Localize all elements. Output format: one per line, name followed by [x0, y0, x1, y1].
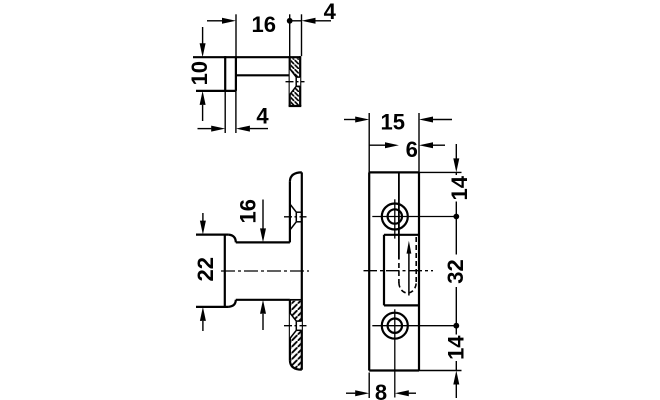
plate dimension 8: left arrow: [346, 392, 355, 394]
plate: slot top edge: [384, 234, 419, 236]
top view: bore lower line: [296, 85, 300, 87]
front view: flange left edge lower: [289, 300, 291, 361]
plate dimension 14 upper: dimension line: [455, 172, 457, 216]
front view: flange shoulder line: [290, 299, 302, 301]
front view dimension 16: lower arrow with shaft: [260, 300, 266, 314]
svg-text:4: 4: [324, 0, 337, 24]
plate dimension 14 upper: arrow: [455, 144, 457, 159]
top view dimension 4 (bottom): extension lines: [224, 91, 226, 133]
front view dimension 22: lower arrow: [200, 307, 206, 321]
plate: center line: [364, 270, 434, 272]
plate: slot right hidden edge dashed: [415, 237, 417, 283]
plate dimension 14 lower: dimension line: [455, 326, 457, 371]
front view: flange right edge: [301, 172, 303, 369]
plate dimension 8: right arrow: [395, 390, 409, 396]
top view dimension 16: shaft and arrow: [207, 20, 222, 22]
svg-text:22: 22: [193, 257, 218, 281]
plate dimension 15: extension lines: [368, 113, 370, 172]
svg-text:14: 14: [447, 175, 472, 200]
plate: pin left hidden edge dashed: [398, 263, 400, 283]
plate: lower hole inner circle: [388, 319, 402, 333]
top view: head left edge: [224, 56, 226, 91]
plate dimension 14 upper: label: [450, 175, 467, 202]
front view: head bottom edge with extension: [196, 306, 228, 308]
front view: center line: [221, 270, 309, 272]
svg-text:15: 15: [380, 109, 404, 134]
svg-text:6: 6: [406, 137, 418, 162]
top view: countersink clearance: [290, 69, 301, 95]
plate dimension 6: right arrow: [419, 142, 433, 148]
top view dimension 16: left extension line: [235, 14, 237, 56]
front view: flange bottom arc: [290, 360, 302, 369]
front view: head left edge: [224, 235, 226, 307]
svg-text:32: 32: [443, 259, 468, 283]
plate: top edge: [369, 171, 419, 173]
top view: neck bottom edge: [236, 74, 290, 76]
plate: channel edge line: [398, 172, 400, 259]
plate dimension 14 lower: label: [448, 335, 465, 362]
top view: countersink cone upper line: [290, 69, 297, 77]
front view: lower countersink cone lines: [290, 313, 296, 321]
front view: head top edge with extension: [196, 234, 228, 236]
svg-text:14: 14: [444, 335, 469, 360]
plate dimension 15: right arrow: [419, 117, 433, 123]
front view: bottom fillet: [228, 300, 235, 307]
top view: bore upper line: [296, 76, 300, 78]
front view: lower countersink bore: [295, 321, 297, 330]
svg-text:16: 16: [236, 199, 261, 223]
plate: upper hole outer circle: [382, 204, 408, 230]
top view: plate bottom edge: [289, 105, 302, 107]
top view: hole axis center line: [286, 81, 305, 83]
plate: lower hole horizontal crosshair to dot: [372, 325, 456, 327]
front view dimension 22: upper arrow: [202, 213, 204, 222]
plate: upper hole inner circle: [388, 209, 402, 223]
plate dimension 14 upper: top edge extension: [419, 171, 462, 173]
plate: upper hole horizontal crosshair to dot: [372, 216, 456, 218]
top view: plate right edge: [299, 56, 301, 106]
top view: plate left edge: [289, 56, 291, 106]
plate dimension 15: left arrow: [344, 119, 355, 121]
plate: upper hole vertical crosshair: [394, 199, 396, 238]
top view dimension 4 (bottom): left arrow: [198, 128, 212, 130]
plate dimension 8: left extension line: [368, 373, 370, 399]
front view: upper countersink cone lines: [290, 204, 296, 212]
svg-text:10: 10: [187, 61, 212, 85]
svg-text:16: 16: [252, 12, 276, 37]
top view: head right edge: [235, 56, 237, 91]
plate: insertion direction arrow: [408, 252, 410, 296]
top view dimension 4 (bottom): right arrow: [236, 126, 250, 132]
top view dimension 16: end dot: [287, 18, 293, 24]
plate dimension 32: upper dot: [453, 214, 459, 220]
svg-text:4: 4: [256, 104, 269, 129]
plate: pin bottom hidden arc dashed: [399, 283, 416, 294]
plate: slot left edge: [383, 235, 385, 306]
plate: lower hole outer circle: [382, 313, 408, 339]
front view: upper hole axis line: [284, 216, 307, 218]
top view: plate section hatching: [291, 58, 299, 105]
front view: upper countersink bore: [295, 212, 297, 222]
plate dimension 14 lower: arrow: [453, 371, 459, 385]
svg-text:8: 8: [375, 380, 387, 400]
plate dimension 32: dimension line: [455, 217, 457, 326]
top view: head bottom edge with extension: [196, 90, 236, 92]
front view: top fillet: [228, 235, 235, 243]
top view: countersink bore step: [295, 77, 297, 86]
top view dimension 10: upper arrow: [202, 27, 204, 44]
plate: slot bottom edge: [384, 304, 419, 306]
front view: flange left edge upper: [289, 181, 291, 242]
front view: neck bottom edge: [236, 299, 290, 301]
plate: lower hole vertical crosshair: [394, 309, 396, 397]
front view: lower hole axis line: [284, 325, 307, 327]
plate: bottom edge: [369, 369, 419, 371]
front view: flange top arc: [290, 172, 302, 181]
top view: part top edge: [193, 56, 300, 58]
top view dimension 4: extension lines: [289, 14, 291, 56]
plate dimension 32: label: [447, 255, 464, 288]
front view dimension 16: upper arrow with shaft: [262, 200, 264, 230]
front view: flange section hatching: [291, 301, 301, 369]
plate: right edge: [418, 172, 420, 370]
front view: neck top edge: [236, 241, 290, 243]
plate dimension 14 lower: bottom edge extension: [419, 370, 462, 372]
front view: lower countersink clearance: [290, 313, 302, 339]
plate: left edge: [368, 172, 370, 370]
top view dimension 4: line arrow and shaft: [291, 20, 302, 22]
top view dimension 10: lower arrow: [200, 91, 206, 105]
plate dimension 6: left arrow: [369, 144, 385, 146]
top view: countersink cone lower line: [290, 86, 297, 94]
plate dimension 32: lower dot: [453, 323, 459, 329]
